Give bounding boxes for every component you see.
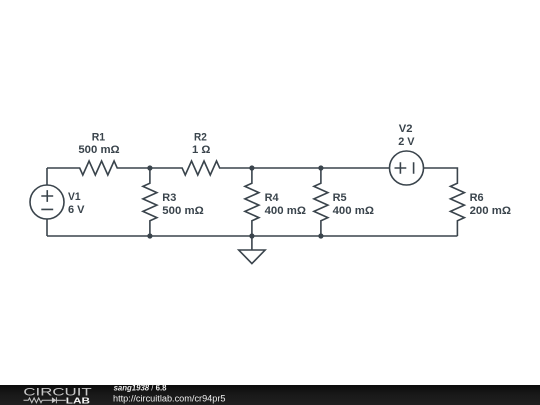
svg-text:2 V: 2 V	[398, 136, 415, 148]
svg-text:http://circuitlab.com/cr94pr5: http://circuitlab.com/cr94pr5	[113, 394, 226, 404]
svg-text:R4: R4	[265, 192, 279, 204]
svg-text:sang1938 / 6.8: sang1938 / 6.8	[114, 384, 168, 393]
svg-text:V2: V2	[399, 123, 413, 135]
svg-text:V1: V1	[68, 191, 81, 203]
svg-text:6 V: 6 V	[68, 204, 85, 216]
svg-text:R5: R5	[333, 192, 347, 204]
svg-text:R2: R2	[194, 131, 207, 143]
svg-text:LAB: LAB	[66, 396, 90, 405]
svg-text:400 mΩ: 400 mΩ	[333, 205, 375, 217]
svg-text:500 mΩ: 500 mΩ	[78, 144, 120, 156]
svg-text:500 mΩ: 500 mΩ	[162, 205, 204, 217]
svg-text:1 Ω: 1 Ω	[192, 144, 211, 156]
svg-text:200 mΩ: 200 mΩ	[470, 205, 512, 217]
svg-text:R3: R3	[162, 192, 176, 204]
svg-text:R1: R1	[92, 131, 105, 143]
svg-text:400 mΩ: 400 mΩ	[265, 205, 307, 217]
svg-text:R6: R6	[470, 192, 484, 204]
